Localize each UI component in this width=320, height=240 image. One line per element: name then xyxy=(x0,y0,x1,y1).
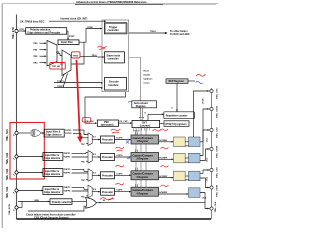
svg-text:ETRP: ETRP xyxy=(69,36,75,38)
svg-text:TIMx_CH2: TIMx_CH2 xyxy=(6,152,9,164)
svg-text:CK_TIM18 from RCC: CK_TIM18 from RCC xyxy=(20,21,45,24)
svg-text:REP Register: REP Register xyxy=(169,80,184,83)
svg-text:Edge detector: Edge detector xyxy=(46,134,62,137)
svg-text:Edge detector: Edge detector xyxy=(44,191,60,194)
svg-text:TIMx_CH3: TIMx_CH3 xyxy=(6,168,9,180)
svg-text:TIMx_CH4: TIMx_CH4 xyxy=(214,201,217,212)
svg-text:TRGI: TRGI xyxy=(73,55,79,57)
svg-text:Register: Register xyxy=(136,105,146,108)
svg-text:OC3: OC3 xyxy=(207,177,209,181)
svg-text:U U U U: U U U U xyxy=(133,130,140,132)
svg-text:IC1: IC1 xyxy=(93,137,96,139)
svg-text:ITR: ITR xyxy=(56,52,60,54)
svg-text:controller: controller xyxy=(108,29,119,32)
svg-text:TRGI: TRGI xyxy=(92,55,97,57)
svg-text:TIMx_CH4: TIMx_CH4 xyxy=(6,186,9,198)
svg-text:Prescaler: Prescaler xyxy=(102,191,113,194)
svg-text:TRGO: TRGO xyxy=(150,31,156,33)
svg-text:DTG: DTG xyxy=(185,146,190,148)
svg-text:Edge detector: Edge detector xyxy=(44,157,60,160)
svg-text:TI3FP3: TI3FP3 xyxy=(64,169,72,171)
svg-text:IC4PS: IC4PS xyxy=(117,189,124,192)
svg-text:ETR: ETR xyxy=(20,29,25,31)
svg-text:ETRF: ETRF xyxy=(88,27,94,29)
svg-text:TI2FP1: TI2FP1 xyxy=(64,153,72,155)
svg-text:IC3: IC3 xyxy=(93,173,96,175)
svg-text:1 Register: 1 Register xyxy=(137,140,149,143)
svg-text:BRK: BRK xyxy=(35,200,40,202)
svg-text:controller: controller xyxy=(108,57,119,60)
svg-text:Internal clock (CK_INT): Internal clock (CK_INT) xyxy=(61,18,88,21)
svg-text:TIMx_CH2: TIMx_CH2 xyxy=(216,127,218,138)
svg-text:TIMx_CH3N: TIMx_CH3N xyxy=(216,184,218,197)
svg-text:Count: Count xyxy=(144,82,150,85)
svg-text:DTG: DTG xyxy=(185,180,190,182)
svg-text:TRC: TRC xyxy=(81,162,86,164)
svg-text:TIMx_ETR: TIMx_ETR xyxy=(12,27,15,39)
svg-text:OC1: OC1 xyxy=(207,138,209,142)
svg-text:TI1FP2: TI1FP2 xyxy=(65,133,73,135)
svg-text:TRC: TRC xyxy=(81,144,86,146)
svg-text:Prescaler: Prescaler xyxy=(102,175,113,178)
svg-text:OC1N: OC1N xyxy=(202,98,204,104)
svg-text:Reset: Reset xyxy=(144,70,150,73)
svg-text:Interface: Interface xyxy=(109,84,120,87)
svg-text:IC1PS: IC1PS xyxy=(117,138,124,140)
svg-text:TIMx_CH2N: TIMx_CH2N xyxy=(216,145,218,158)
svg-text:IC3PS: IC3PS xyxy=(117,173,124,175)
svg-text:Edge detector: Edge detector xyxy=(44,173,60,176)
svg-text:TIMx_CH1N: TIMx_CH1N xyxy=(216,105,218,118)
svg-text:TI1FP1: TI1FP1 xyxy=(65,130,73,132)
svg-text:OC2: OC2 xyxy=(207,158,209,162)
svg-text:Up/Down: Up/Down xyxy=(144,79,154,81)
svg-text:TI4FP3: TI4FP3 xyxy=(64,186,72,189)
svg-text:CK_CNT: CK_CNT xyxy=(119,121,128,123)
svg-text:4 Register: 4 Register xyxy=(137,192,149,195)
svg-text:TIMx_CH3: TIMx_CH3 xyxy=(216,167,218,178)
svg-text:IC2: IC2 xyxy=(93,154,96,156)
svg-text:To DAC and ADC: To DAC and ADC xyxy=(170,33,190,36)
svg-text:TRC: TRC xyxy=(81,196,86,198)
svg-text:TI1F_ED: TI1F_ED xyxy=(52,66,61,68)
svg-text:TI4FP4: TI4FP4 xyxy=(64,190,72,193)
svg-text:TIMx_CH1: TIMx_CH1 xyxy=(6,129,9,141)
svg-text:Repetition counter: Repetition counter xyxy=(166,115,188,118)
svg-text:IC2PS: IC2PS xyxy=(117,155,124,157)
svg-text:CSS (Clock Security System): CSS (Clock Security System) xyxy=(34,216,69,219)
svg-text:TIMx_CH1: TIMx_CH1 xyxy=(216,88,218,99)
svg-text:Prescaler: Prescaler xyxy=(102,139,113,142)
svg-text:3 Register: 3 Register xyxy=(137,176,149,179)
svg-text:Input filter: Input filter xyxy=(61,41,73,44)
svg-text:TRC: TRC xyxy=(81,180,86,182)
svg-text:TI2FP2: TI2FP2 xyxy=(64,157,72,159)
svg-text:(counter): (counter) xyxy=(140,125,151,128)
svg-text:2 Register: 2 Register xyxy=(137,158,149,161)
svg-text:DTG[7:0] registers: DTG[7:0] registers xyxy=(166,123,188,126)
svg-text:Enable: Enable xyxy=(144,75,152,77)
svg-text:Advanced-control timers (TIM1&: Advanced-control timers (TIM1&TIM8) RM00… xyxy=(76,0,147,4)
svg-text:Edge detector and Prescaler: Edge detector and Prescaler xyxy=(28,31,61,34)
svg-text:(prescaler): (prescaler) xyxy=(101,123,114,126)
svg-text:TIMx_BKIN: TIMx_BKIN xyxy=(9,204,11,215)
svg-text:Prescaler: Prescaler xyxy=(102,156,113,159)
svg-text:Polarity selection: Polarity selection xyxy=(52,201,73,204)
svg-text:DTG: DTG xyxy=(185,162,190,164)
svg-text:TI3FP4: TI3FP4 xyxy=(64,172,72,175)
